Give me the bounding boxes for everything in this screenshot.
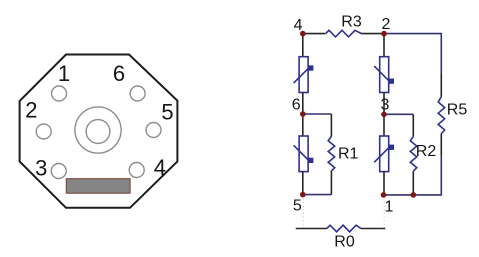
svg-text:5: 5 [161, 100, 173, 125]
svg-text:6: 6 [113, 61, 125, 86]
resistor R3 [326, 30, 362, 37]
svg-text:2: 2 [25, 98, 37, 123]
wire right rail bottom to node1 [384, 155, 442, 195]
wire R1 upper lead [330, 114, 332, 136]
dotted link node5 to R0 [302, 199, 304, 229]
pin 4 hole [129, 163, 144, 178]
variable resistor RB4 (between nodes 4 and 6) [294, 57, 314, 93]
variable resistor RB3 (between nodes 3 and 1) [374, 136, 394, 172]
wire node5 to R1 bottom corner [303, 194, 332, 196]
pin 5 hole [146, 123, 161, 138]
svg-text:R5: R5 [447, 102, 468, 119]
variable resistor RB2 (between nodes 2 and 3) [374, 57, 394, 93]
wire R2 lower lead [412, 171, 414, 195]
pin 2 hole [36, 124, 51, 139]
tab marker gray rectangle [66, 179, 130, 194]
center port inner circle [86, 120, 110, 144]
wire R0 right lead [361, 228, 385, 230]
node 3 junction [381, 112, 387, 118]
pin 6 hole [130, 86, 145, 101]
wire node4 to R3 (left lead) [303, 33, 326, 35]
node 1 junction [381, 192, 387, 198]
wire R1 lower lead [330, 171, 332, 195]
wire RB2 to node3 [383, 93, 385, 115]
svg-text:6: 6 [292, 97, 301, 114]
node 2 junction [381, 31, 387, 37]
wire RB6 to node5 [302, 171, 304, 194]
resistor R2 [410, 136, 417, 171]
wire R3 to node2 (right lead) [361, 33, 384, 35]
svg-text:R1: R1 [338, 145, 359, 162]
pin 3 hole [51, 164, 66, 179]
wire R2 upper lead [412, 114, 414, 136]
wire R0 left lead [296, 228, 327, 230]
wire node2 to right rail top [384, 34, 441, 73]
node 4 junction [300, 31, 306, 37]
pin 1 hole [52, 86, 67, 101]
svg-text:1: 1 [58, 61, 70, 86]
center port outer circle [75, 107, 121, 153]
junction R2 bottom [411, 192, 417, 198]
wire node6 to R1 top corner [303, 113, 332, 115]
wire node2 down to RB2 [383, 34, 385, 57]
svg-text:2: 2 [381, 16, 390, 33]
svg-text:3: 3 [380, 97, 389, 114]
variable resistor RB6 (between nodes 6 and 5) [294, 136, 314, 172]
svg-text:R2: R2 [416, 143, 437, 160]
svg-text:4: 4 [294, 17, 303, 34]
wire node6 down to RB6 [302, 114, 304, 136]
svg-text:3: 3 [35, 155, 47, 180]
resistor R1 [328, 136, 335, 171]
svg-text:1: 1 [385, 199, 394, 216]
svg-text:4: 4 [154, 155, 166, 180]
svg-text:5: 5 [293, 198, 302, 215]
wire RB3 to node1 [383, 171, 385, 195]
wire right rail upper lead of R5 [440, 73, 442, 97]
dotted link node1 to R0 [383, 199, 385, 229]
resistor R0 [327, 225, 361, 232]
svg-text:R3: R3 [341, 14, 362, 31]
wire right rail lower lead of R5 [440, 133, 442, 155]
package outline octagon [20, 55, 178, 208]
wire node4 down to RB4 [302, 34, 304, 57]
wire RB4 to node6 [302, 93, 304, 115]
svg-text:R0: R0 [334, 234, 355, 251]
wire node3 to R2 top corner [384, 113, 413, 115]
node 6 junction [300, 111, 306, 117]
node 5 junction [300, 192, 306, 198]
resistor R5 [438, 97, 445, 134]
wire node3 down to RB3 [383, 114, 385, 135]
